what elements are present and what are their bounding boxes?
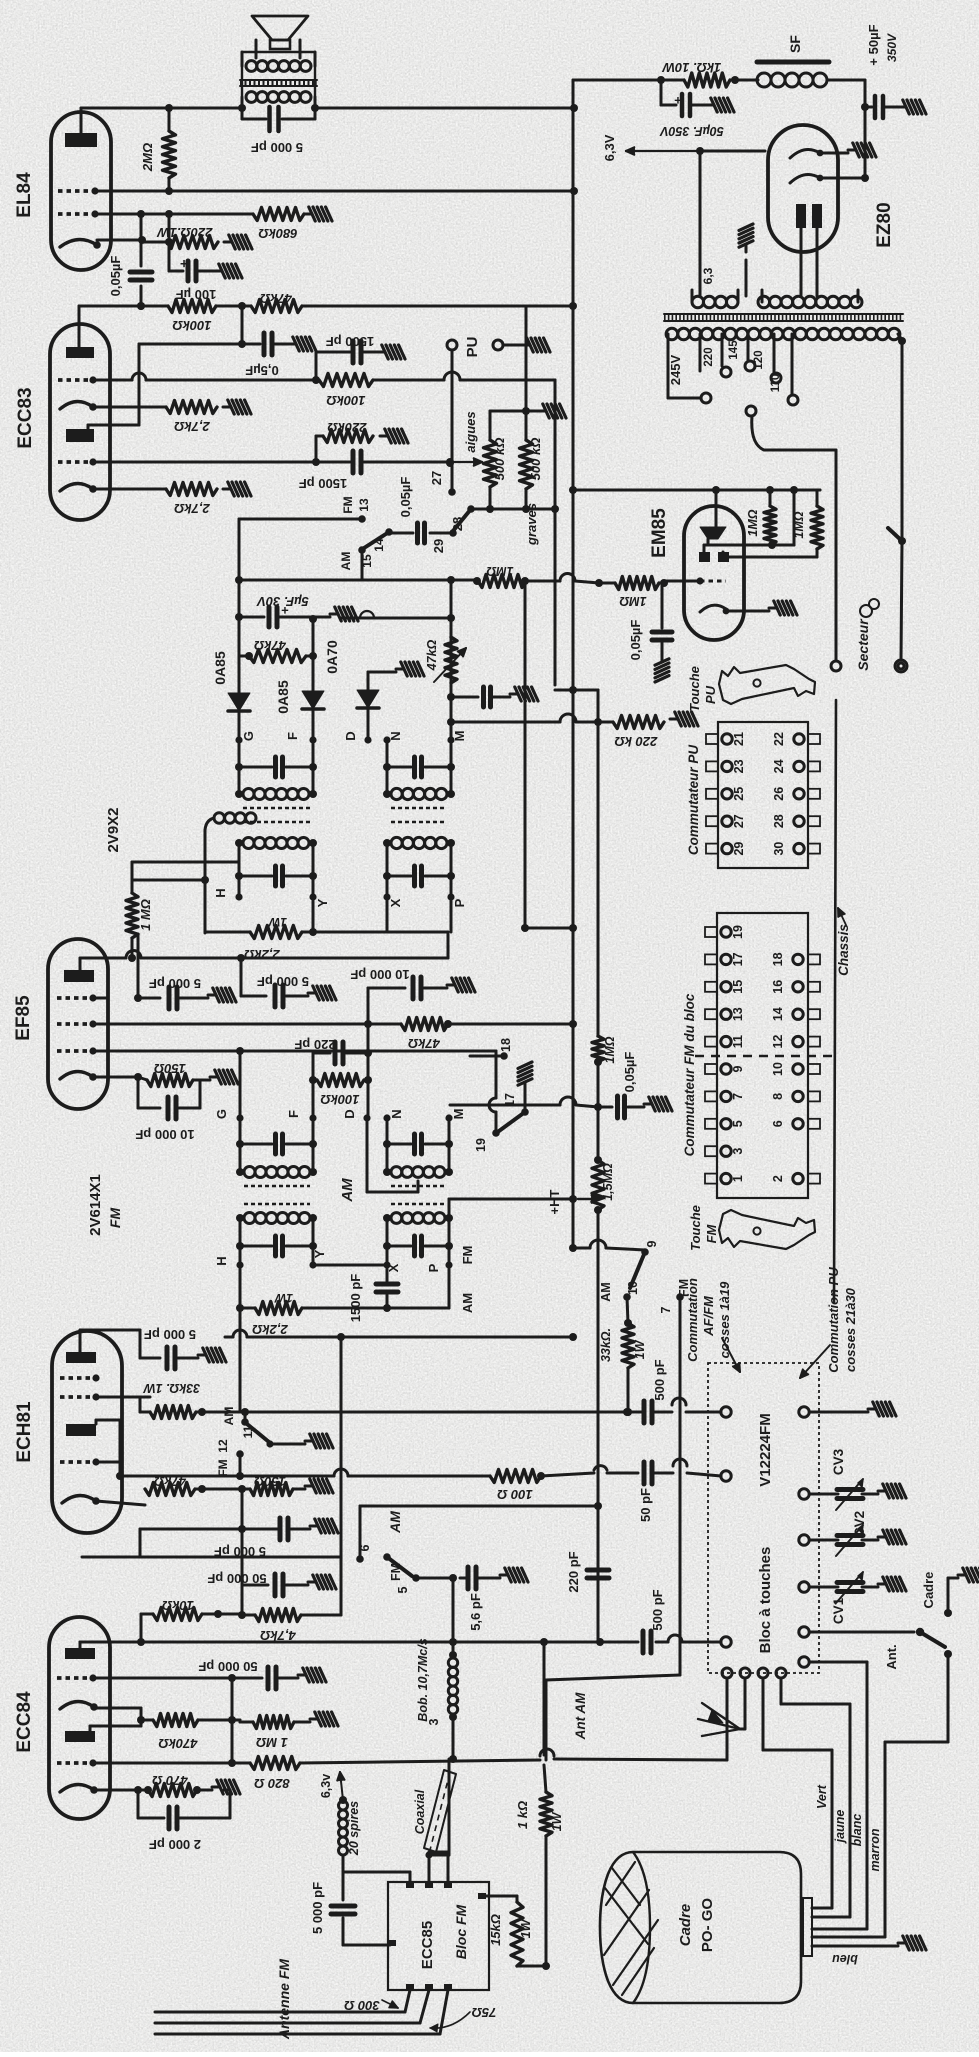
wire vert [762, 1678, 765, 1750]
wire heater to winding [699, 151, 702, 296]
wire bob to y1759 [452, 1717, 455, 1759]
CV3 variable capacitor [837, 1487, 863, 1492]
svg-text:5 000 pF: 5 000 pF [149, 976, 201, 991]
bloc FM pin left mid [388, 1940, 396, 1946]
svg-text:cosses 21à30: cosses 21à30 [843, 1287, 858, 1372]
EZ80 cathode arc 2 [790, 174, 820, 183]
resistor 220 ohm 1W cathode [167, 236, 218, 249]
svg-text:19: 19 [474, 1138, 488, 1152]
wire y1506 [360, 1505, 598, 1508]
resistor 1k 1W [540, 1792, 552, 1836]
svg-text:1MΩ: 1MΩ [746, 509, 760, 536]
lever Touche PU [719, 665, 815, 704]
svg-text:2 000 pF: 2 000 pF [149, 1837, 201, 1852]
node M 2V614X1 [445, 1114, 452, 1121]
svg-text:ECH81: ECH81 [14, 1401, 35, 1463]
commutateur FM pin 7 [705, 1091, 717, 1101]
commutateur FM box [717, 913, 808, 1198]
2V614X1 tank N-M capacitor [386, 1118, 389, 1172]
ECC83 anode 2 [66, 429, 94, 442]
svg-text:Commutateur FM du bloc: Commutateur FM du bloc [682, 993, 697, 1156]
ECC84 grid 2 [57, 1761, 93, 1765]
OT core [240, 79, 317, 81]
wire x341 to bus [340, 1337, 343, 1557]
svg-text:220 kΩ: 220 kΩ [615, 734, 659, 749]
ground 100uF [214, 270, 222, 273]
2V614X1 lower tank H-Y coil [244, 1213, 255, 1224]
contact Cadre [944, 1609, 952, 1617]
node N 2V614X1 [383, 1114, 390, 1121]
capacitor 0,05uF contact 29 [430, 532, 449, 535]
2V9X2 tank N-M capacitor [386, 740, 389, 794]
capacitor 5000pF ECH81 anode [140, 1357, 160, 1360]
switch pivot ant cadre [916, 1628, 924, 1636]
contact 29 [449, 529, 457, 537]
power transformer core [664, 313, 903, 315]
ECC83 grid 1 [58, 378, 93, 382]
2V9X2 tank N-M coil [383, 790, 391, 798]
svg-text:17: 17 [731, 952, 745, 966]
svg-text:47kΩ: 47kΩ [260, 291, 293, 306]
svg-text:EZ80: EZ80 [874, 202, 895, 247]
wire y1476 50pF [541, 1473, 594, 1476]
ECC84 cathode 2 [60, 1784, 94, 1792]
wire grid2 volume line [93, 379, 132, 382]
capacitor 50uF 350V second [865, 106, 872, 109]
svg-text:cosses 1à19: cosses 1à19 [717, 1281, 732, 1358]
wire pots top ground [490, 410, 538, 413]
terminal bloc right gnd [799, 1407, 809, 1417]
capacitor 1500pF series [351, 451, 356, 473]
node G 2V614X1 [236, 1114, 243, 1121]
arrow commutation PU [800, 1345, 830, 1378]
ground 10000pF screen [447, 984, 455, 987]
2V9X2 tank G-F coil [235, 790, 243, 798]
EM85 deflection squares [699, 552, 710, 562]
ground arm 11 [270, 1443, 305, 1446]
wire 100k to tone box [373, 379, 444, 382]
cadre winding band [604, 1890, 649, 1955]
svg-text:13: 13 [357, 498, 371, 512]
svg-text:220: 220 [703, 347, 715, 366]
svg-text:500 pF: 500 pF [650, 1589, 665, 1630]
resistor 100k plate load [168, 300, 216, 313]
tap 145 [747, 334, 750, 360]
resistor 10k [140, 1614, 143, 1642]
svg-text:23: 23 [732, 759, 746, 773]
terminal PU 1 [447, 340, 457, 350]
transformer heater winding A [692, 296, 704, 308]
contact 6 [356, 1555, 364, 1563]
svg-text:FM: FM [107, 1208, 123, 1229]
chassis line [834, 700, 836, 1302]
wire 5 to 5,6pF [416, 1577, 453, 1580]
contact 17 [521, 1108, 529, 1116]
svg-text:12: 12 [216, 1439, 230, 1453]
svg-text:50µF. 350V: 50µF. 350V [659, 124, 724, 138]
capacitor 0,05uF EM85 grid [661, 583, 664, 628]
svg-text:100kΩ: 100kΩ [326, 393, 365, 408]
2V9X2 lower tank X-P coil [391, 837, 402, 848]
svg-text:25: 25 [732, 787, 746, 801]
2V614X1 tank N-M coil [383, 1168, 391, 1176]
svg-text:aigues: aigues [463, 411, 478, 452]
potentiometer graves 500k [525, 411, 528, 440]
ground pots [538, 410, 546, 413]
svg-text:Commutateur PU: Commutateur PU [686, 744, 701, 856]
svg-text:11: 11 [731, 1035, 745, 1048]
OT frame wires [241, 97, 244, 108]
commutateur FM pin 5 [705, 1119, 717, 1129]
svg-text:1 kΩ: 1 kΩ [515, 1801, 530, 1829]
svg-text:2,2kΩ: 2,2kΩ [252, 1322, 288, 1337]
EL84 grid g1 [58, 212, 95, 216]
resistor 1k 10W [661, 79, 684, 82]
speaker leads [255, 40, 258, 58]
wire EF85 screen line [93, 1023, 368, 1026]
resistor 1M ECC84 [253, 1716, 294, 1729]
svg-text:Y: Y [312, 1249, 327, 1258]
svg-text:+HT: +HT [547, 1189, 562, 1214]
svg-text:Ant AM: Ant AM [573, 1692, 588, 1740]
arrow commutation AF/FM [722, 1338, 740, 1372]
ground 50000pF grid1 ECC84 [298, 1674, 306, 1677]
svg-text:+ 50µF: + 50µF [866, 24, 881, 65]
ground heater mid [745, 244, 748, 252]
wire FM7 column down to y1675 [679, 1540, 682, 1675]
resistor 4,7k [255, 1609, 301, 1622]
node D 2V9X2 [364, 736, 371, 743]
svg-text:3: 3 [427, 1718, 441, 1725]
2V9X2 core dashes lower [243, 821, 310, 823]
wire PU down to volume node [451, 350, 454, 463]
svg-text:EF85: EF85 [13, 995, 34, 1041]
ground 50uF second [898, 106, 906, 109]
svg-text:500 pF: 500 pF [652, 1359, 667, 1400]
terminal secteur right [895, 660, 907, 672]
node P 2V9X2 [447, 893, 454, 900]
svg-text:10kΩ: 10kΩ [162, 1598, 194, 1613]
EM85 grid [700, 580, 726, 583]
ECH81 grid 4 [60, 1376, 96, 1380]
wire anode EL84 to output transformer [81, 107, 242, 110]
resistor 47k ECH81 cathode [145, 1483, 195, 1496]
2V614X1 lower tank X-P capacitor [383, 1242, 391, 1250]
svg-text:H: H [213, 888, 228, 897]
resistor 100k volume series [319, 374, 373, 387]
svg-text:D: D [343, 731, 358, 740]
contact 9 [641, 1248, 649, 1256]
ground 470 ohm [212, 1786, 220, 1789]
commutateur FM pin 16 [808, 982, 820, 992]
wire blanc [810, 1661, 867, 1664]
node D 2V614X1 [363, 1114, 370, 1121]
svg-text:marron: marron [868, 1828, 882, 1871]
antenna FM feeder lines [155, 2011, 405, 2014]
tap 220 [721, 334, 724, 366]
ground bloc right [868, 1408, 876, 1411]
svg-text:5 000 pF: 5 000 pF [310, 1882, 325, 1934]
wire EM85 squares left [703, 545, 706, 552]
2V9X2 tank G-F capacitor [238, 740, 241, 794]
ground 150 ECH81 [305, 1485, 313, 1488]
svg-text:100kΩ: 100kΩ [172, 318, 211, 333]
svg-text:G: G [241, 731, 256, 741]
ECC84 anode 1 [65, 1648, 95, 1659]
svg-text:ECC85: ECC85 [419, 1921, 436, 1969]
switch arm 17-19 [499, 1112, 525, 1131]
svg-text:245V: 245V [668, 354, 683, 385]
resistor 1M AGC vertical [132, 861, 239, 864]
svg-text:1MΩ: 1MΩ [619, 594, 646, 608]
switch arm 28-29 [453, 509, 471, 531]
wire M column to 220k [451, 721, 560, 724]
svg-text:1: 1 [731, 1175, 745, 1182]
commutateur PU pin 30 [808, 844, 820, 854]
wire y1105 left [450, 1104, 560, 1107]
svg-text:24: 24 [772, 759, 786, 773]
resistor 470k [153, 1714, 198, 1727]
svg-text:5 000 pF: 5 000 pF [251, 140, 303, 155]
svg-text:Secteur: Secteur [855, 618, 871, 671]
svg-text:29: 29 [732, 842, 746, 856]
svg-text:Coaxial: Coaxial [413, 1789, 427, 1834]
capacitor 5000pF grid1 EF85 [138, 997, 160, 1000]
bloc FM pin top 3 [444, 1882, 452, 1888]
svg-text:jaune: jaune [833, 1810, 847, 1845]
ground 2,7k 1 [223, 406, 231, 409]
column x525 [524, 581, 527, 928]
svg-text:1W: 1W [633, 1339, 647, 1359]
svg-text:0,05µF: 0,05µF [622, 1052, 637, 1093]
wire D to coil tap [366, 1118, 369, 1192]
svg-text:10 000 pF: 10 000 pF [135, 1127, 194, 1142]
bloc bottom terminals [722, 1668, 732, 1678]
svg-text:H: H [214, 1256, 229, 1265]
bloc FM pins bottom [406, 1984, 414, 1990]
svg-text:AM: AM [339, 1178, 356, 1203]
svg-text:145: 145 [728, 340, 740, 360]
svg-text:AM: AM [339, 552, 353, 571]
wire hump over rail on grid line [526, 580, 560, 583]
potentiometer aigues 500k [489, 411, 492, 440]
bloc FM box [388, 1882, 489, 1990]
svg-text:+: + [674, 93, 682, 108]
resistor 470 ohm cathode2 [134, 1786, 142, 1794]
wire y618 to 47k column [340, 617, 443, 620]
CV1 variable capacitor [837, 1580, 863, 1585]
coaxial cable [424, 1770, 456, 1852]
bloc FM pin top 1 [406, 1882, 414, 1888]
svg-text:1W: 1W [273, 1291, 293, 1305]
lever Touche FM [719, 1210, 815, 1249]
svg-text:F: F [285, 732, 300, 740]
svg-text:10 000 pF: 10 000 pF [350, 967, 409, 982]
ground 5000pF anode [308, 992, 316, 995]
svg-text:blanc: blanc [850, 1814, 864, 1847]
svg-text:220kΩ: 220kΩ [327, 420, 367, 435]
wire 5 node to bus 1642 [452, 1578, 455, 1642]
2V9X2 core dashes upper [243, 807, 310, 809]
AGC column to grid1 [137, 934, 140, 998]
svg-text:47kΩ: 47kΩ [254, 638, 287, 653]
capacitor 5uF 30V polarized [239, 616, 264, 619]
node G [235, 736, 242, 743]
EL84 cathode [60, 239, 97, 247]
wire y1557 osc [82, 1556, 341, 1559]
svg-text:7: 7 [731, 1093, 745, 1100]
contact 19 [492, 1129, 500, 1137]
resistor 1M grid a [478, 575, 526, 588]
node H 2V9X2 [235, 893, 242, 900]
svg-text:0,05µF: 0,05µF [398, 477, 413, 518]
commutateur FM pin 11 [705, 1037, 717, 1047]
cadre wire 3 [812, 1928, 867, 1931]
2V614X1 lower tank H-Y capacitor [236, 1242, 244, 1250]
svg-text:1 MΩ: 1 MΩ [138, 899, 153, 931]
EF85 grid 2 [57, 1022, 93, 1026]
tube EM85 [684, 506, 744, 640]
resistor 2,7k cathode 2 [166, 483, 217, 496]
wire 47k to HT rail [302, 305, 573, 308]
svg-text:D: D [342, 1109, 357, 1118]
wire anode bus 1337 [225, 1336, 233, 1339]
svg-text:18: 18 [499, 1038, 513, 1052]
svg-text:33kΩ. 1W: 33kΩ. 1W [143, 1381, 201, 1395]
wire 5uF to ground [313, 616, 330, 619]
svg-text:1500 pF: 1500 pF [299, 476, 347, 491]
EM85 target fan [700, 527, 726, 539]
column x598 upper [597, 690, 600, 1036]
svg-text:bleu: bleu [832, 1952, 858, 1966]
svg-text:350V: 350V [885, 33, 899, 62]
svg-text:N: N [388, 731, 403, 740]
contact 11 AM [244, 1412, 247, 1420]
svg-text:AF/FM: AF/FM [701, 1295, 716, 1337]
wire PU node to contact 27 [451, 463, 454, 490]
CV2 variable capacitor [837, 1533, 863, 1538]
wire H column to 11 zone [239, 1308, 242, 1412]
commutateur PU box [718, 722, 808, 868]
svg-text:470 Ω: 470 Ω [152, 1773, 188, 1788]
ground 5uF [330, 613, 338, 616]
wire coax bottom [425, 1851, 432, 1858]
EL84 grid g2 [58, 189, 95, 193]
switch arm 11 [247, 1424, 269, 1442]
node H 2V614X1 [236, 1261, 243, 1268]
wire tone line with 1500pF series [93, 461, 350, 464]
ground EM85 cathode [769, 607, 777, 610]
wire Y to 2,2k [312, 897, 315, 932]
column M x451 [450, 580, 453, 740]
2V9X2 lower tank H-Y coil [243, 838, 254, 849]
svg-text:2MΩ: 2MΩ [140, 143, 155, 172]
wire grid3 down G column [239, 1051, 242, 1118]
tube ECC84 [49, 1617, 110, 1819]
dashed line through FM commutateur [695, 1055, 836, 1057]
svg-text:110: 110 [770, 374, 782, 393]
contact 27 [448, 488, 456, 496]
svg-text:FM: FM [389, 1563, 403, 1581]
capacitor 500pF AF [623, 1408, 631, 1416]
svg-text:P: P [452, 898, 467, 907]
capacitor 100uF cathode bypass [168, 242, 171, 271]
svg-text:FM: FM [341, 496, 355, 513]
svg-text:0A85: 0A85 [212, 651, 228, 685]
wire D column upper [367, 1024, 370, 1118]
wire H column down [239, 1265, 242, 1308]
commutateur FM pin 18 [808, 954, 820, 964]
svg-text:2,7kΩ: 2,7kΩ [174, 501, 210, 516]
resistor 47k decoupling [216, 305, 251, 308]
svg-text:33kΩ.: 33kΩ. [599, 1328, 613, 1362]
commutateur FM pin 15 [705, 982, 717, 992]
svg-text:2V614X1: 2V614X1 [87, 1174, 104, 1236]
HT rail vertical [572, 80, 575, 1248]
resistor 15k 1W [511, 1902, 523, 1966]
ground 0,05 x598 [644, 1103, 652, 1106]
heater 20 spires coil [342, 1856, 345, 1872]
svg-text:30: 30 [772, 842, 786, 856]
tube ECC83 [50, 324, 110, 520]
commutateur FM pin 9 [705, 1064, 717, 1074]
capacitor 220pF [587, 1568, 609, 1573]
svg-text:FM: FM [216, 1459, 230, 1476]
OT primary winding [246, 92, 257, 103]
terminal CV1 [799, 1582, 809, 1592]
vertical column grid coupling [140, 214, 143, 266]
commutateur PU pin 24 [808, 761, 820, 771]
resistor 1,5M x598 [597, 1107, 600, 1160]
resistor 2M ohm [163, 131, 176, 178]
svg-text:0,5µF: 0,5µF [245, 363, 279, 378]
ground 220k [380, 435, 388, 438]
svg-text:680kΩ: 680kΩ [258, 226, 297, 241]
ground OA70 [396, 668, 404, 671]
contact 13 FM [358, 515, 366, 523]
wire 1k column [543, 1642, 546, 1755]
svg-text:5: 5 [396, 1586, 410, 1593]
svg-text:16: 16 [771, 980, 785, 994]
switch arm 9-10 [630, 1252, 645, 1288]
terminal CV2 [799, 1535, 809, 1545]
resistor 33k 1W g2 [150, 1406, 196, 1419]
resistor 150 ohm ECH81 [250, 1483, 293, 1496]
resistor 1M x598 [592, 1036, 604, 1062]
svg-text:150Ω: 150Ω [254, 1474, 286, 1489]
EZ80 cathode arc 1 [790, 149, 820, 158]
capacitor 0,05uF x598 [598, 1106, 612, 1109]
wire x232 column [231, 1678, 234, 1763]
ground CV3 [878, 1490, 886, 1493]
wire rail top [573, 79, 661, 82]
svg-text:Antenne FM: Antenne FM [276, 1959, 292, 2040]
commutateur PU pin 23 [706, 761, 718, 771]
wire cathode1 to anode2 column [140, 1708, 143, 1726]
ground 220 ohm [224, 241, 232, 244]
ground EZ80 arc1 [848, 149, 856, 152]
svg-text:47kΩ: 47kΩ [425, 639, 439, 671]
svg-text:1,5MΩ: 1,5MΩ [601, 1163, 615, 1201]
wire 13 to detector [239, 518, 362, 521]
commutateur FM pin 6 [808, 1119, 820, 1129]
ground 17 [524, 1090, 527, 1112]
ground PU [522, 344, 530, 347]
ECH81 anode hexode [66, 1352, 96, 1363]
tap 120 [773, 334, 776, 372]
cadre PO-GO body [600, 1852, 801, 2003]
diode OA85 second [302, 691, 324, 709]
